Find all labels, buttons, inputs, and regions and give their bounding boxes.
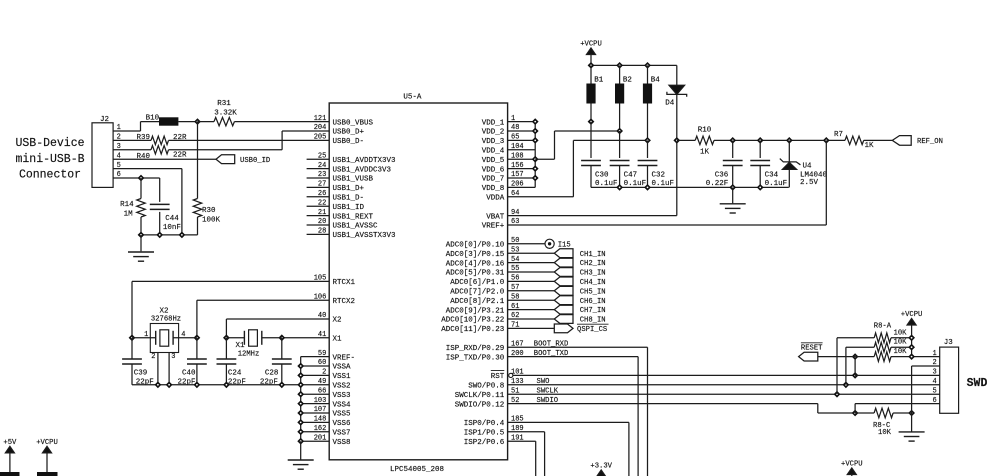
svg-text:1: 1 — [144, 331, 148, 339]
svg-text:CH1_IN: CH1_IN — [580, 251, 606, 259]
svg-text:VSS8: VSS8 — [333, 439, 351, 447]
svg-text:ADC0[7]/P2.0: ADC0[7]/P2.0 — [450, 289, 505, 297]
svg-text:1K: 1K — [700, 148, 710, 156]
svg-text:C30: C30 — [595, 171, 609, 179]
svg-text:R30: R30 — [202, 207, 216, 215]
svg-text:CH2_IN: CH2_IN — [580, 260, 606, 268]
svg-text:VREF+: VREF+ — [482, 223, 505, 231]
svg-text:B10: B10 — [146, 114, 160, 122]
svg-text:10K: 10K — [878, 429, 892, 437]
svg-text:J3: J3 — [944, 339, 954, 347]
svg-text:0.1uF: 0.1uF — [765, 180, 788, 188]
svg-text:R39: R39 — [136, 134, 150, 142]
svg-text:X1: X1 — [235, 342, 245, 350]
svg-text:1K: 1K — [865, 142, 875, 150]
svg-text:C47: C47 — [624, 171, 638, 179]
svg-text:R10: R10 — [698, 127, 712, 135]
svg-text:RESET: RESET — [801, 344, 823, 352]
svg-text:USB1_AVSSC: USB1_AVSSC — [333, 223, 379, 231]
svg-text:X2: X2 — [333, 317, 342, 325]
svg-text:C44: C44 — [165, 215, 179, 223]
svg-text:R7: R7 — [834, 131, 843, 139]
svg-text:VDD_7: VDD_7 — [482, 176, 505, 184]
svg-text:REF_ON: REF_ON — [917, 138, 943, 146]
svg-text:+VCPU: +VCPU — [580, 41, 602, 49]
svg-text:USB1_D+: USB1_D+ — [333, 185, 365, 193]
svg-text:+VCPU: +VCPU — [901, 311, 923, 319]
svg-text:VSS1: VSS1 — [333, 373, 352, 381]
svg-text:SWD: SWD — [967, 377, 988, 390]
svg-text:CH7_IN: CH7_IN — [580, 307, 606, 315]
svg-text:USB1_VUSB: USB1_VUSB — [333, 176, 374, 184]
svg-text:2: 2 — [151, 353, 155, 361]
svg-text:R31: R31 — [217, 100, 231, 108]
svg-text:10K: 10K — [894, 339, 908, 347]
svg-text:10K: 10K — [894, 329, 908, 337]
svg-text:SWO/P0.8: SWO/P0.8 — [468, 383, 504, 391]
svg-text:VDDA: VDDA — [486, 195, 505, 203]
svg-text:B1: B1 — [594, 77, 604, 85]
svg-text:C32: C32 — [652, 171, 666, 179]
svg-text:mini-USB-B: mini-USB-B — [15, 153, 84, 166]
svg-text:USB0_D+: USB0_D+ — [333, 129, 365, 137]
svg-text:CH8_IN: CH8_IN — [580, 317, 606, 325]
svg-text:R8-A: R8-A — [874, 322, 892, 330]
svg-text:ISP2/P0.6: ISP2/P0.6 — [464, 439, 505, 447]
svg-text:C39: C39 — [134, 369, 148, 377]
svg-text:VSS5: VSS5 — [333, 411, 352, 419]
svg-text:VSS2: VSS2 — [333, 383, 351, 391]
svg-text:USB0_VBUS: USB0_VBUS — [333, 119, 374, 127]
svg-text:1M: 1M — [124, 211, 134, 219]
svg-text:ISP_RXD/P0.29: ISP_RXD/P0.29 — [446, 345, 505, 353]
svg-text:SWO: SWO — [537, 378, 550, 386]
svg-text:ADC0[8]/P2.1: ADC0[8]/P2.1 — [450, 298, 505, 306]
svg-text:BOOT_TXD: BOOT_TXD — [534, 350, 569, 358]
svg-text:VDD_5: VDD_5 — [482, 157, 505, 165]
svg-text:USB0_D-: USB0_D- — [333, 138, 365, 146]
svg-text:CH5_IN: CH5_IN — [580, 288, 606, 296]
svg-text:RST: RST — [491, 373, 505, 381]
svg-text:B4: B4 — [651, 77, 661, 85]
svg-text:U4: U4 — [803, 162, 813, 170]
svg-text:CH3_IN: CH3_IN — [580, 270, 606, 278]
svg-text:+5V: +5V — [3, 439, 17, 447]
svg-text:ISP0/P0.4: ISP0/P0.4 — [464, 420, 505, 428]
svg-text:10K: 10K — [894, 348, 908, 356]
svg-text:VSS7: VSS7 — [333, 430, 351, 438]
svg-text:CH6_IN: CH6_IN — [580, 298, 606, 306]
svg-text:+VCPU: +VCPU — [841, 461, 863, 469]
svg-text:SWDIO/P0.12: SWDIO/P0.12 — [455, 401, 505, 409]
svg-text:USB1_AVDDTX3V3: USB1_AVDDTX3V3 — [333, 157, 397, 165]
svg-text:100K: 100K — [202, 216, 221, 224]
svg-text:SWCLK/P0.11: SWCLK/P0.11 — [455, 392, 505, 400]
svg-text:ISP_TXD/P0.30: ISP_TXD/P0.30 — [446, 354, 505, 362]
svg-text:VDD_1: VDD_1 — [482, 119, 505, 127]
svg-text:VSS4: VSS4 — [333, 401, 352, 409]
svg-text:C36: C36 — [715, 171, 729, 179]
svg-text:VSSA: VSSA — [333, 364, 352, 372]
svg-text:VDD_2: VDD_2 — [482, 129, 505, 137]
svg-text:22R: 22R — [173, 151, 187, 159]
svg-text:32768Hz: 32768Hz — [151, 315, 181, 323]
svg-text:B2: B2 — [623, 77, 632, 85]
svg-text:3.32K: 3.32K — [214, 110, 237, 118]
svg-text:VREF-: VREF- — [333, 354, 356, 362]
svg-text:R14: R14 — [120, 201, 134, 209]
svg-text:3: 3 — [171, 353, 175, 361]
svg-text:VSS3: VSS3 — [333, 392, 352, 400]
svg-text:X2: X2 — [159, 308, 168, 316]
svg-text:J2: J2 — [100, 116, 109, 124]
svg-text:USB1_AVDDC3V3: USB1_AVDDC3V3 — [333, 166, 392, 174]
svg-text:0.22F: 0.22F — [706, 180, 729, 188]
svg-text:QSPI_CS: QSPI_CS — [577, 326, 607, 334]
svg-text:10nF: 10nF — [163, 224, 181, 232]
svg-text:4: 4 — [181, 331, 185, 339]
svg-text:USB1_D-: USB1_D- — [333, 195, 365, 203]
svg-text:VDD_6: VDD_6 — [482, 166, 505, 174]
svg-text:ADC0[6]/P1.0: ADC0[6]/P1.0 — [450, 279, 505, 287]
svg-text:CH4_IN: CH4_IN — [580, 279, 606, 287]
svg-text:SWDIO: SWDIO — [537, 397, 559, 405]
svg-text:USB0_ID: USB0_ID — [240, 157, 270, 165]
svg-text:+VCPU: +VCPU — [36, 439, 58, 447]
svg-text:C24: C24 — [228, 369, 242, 377]
svg-text:LPC54005_208: LPC54005_208 — [390, 466, 444, 474]
svg-text:USB1_ID: USB1_ID — [333, 204, 365, 212]
svg-text:RTCX2: RTCX2 — [333, 298, 356, 306]
svg-text:SWCLK: SWCLK — [537, 387, 559, 395]
svg-text:ADC0[0]/P0.10: ADC0[0]/P0.10 — [446, 242, 505, 250]
svg-text:U5-A: U5-A — [403, 94, 422, 102]
svg-text:X1: X1 — [333, 336, 343, 344]
svg-text:USB1_REXT: USB1_REXT — [333, 213, 374, 221]
svg-text:Connector: Connector — [19, 169, 81, 182]
svg-text:C34: C34 — [765, 171, 779, 179]
svg-text:ADC0[3]/P0.15: ADC0[3]/P0.15 — [446, 251, 505, 259]
svg-text:+3.3V: +3.3V — [590, 463, 612, 471]
svg-text:2.5V: 2.5V — [800, 179, 819, 187]
svg-text:USB-Device: USB-Device — [15, 137, 84, 150]
svg-text:USB1_AVSSTX3V3: USB1_AVSSTX3V3 — [333, 232, 397, 240]
svg-text:C40: C40 — [182, 369, 196, 377]
svg-text:BOOT_RXD: BOOT_RXD — [534, 340, 569, 348]
svg-text:VDD_4: VDD_4 — [482, 148, 505, 156]
svg-text:D4: D4 — [665, 100, 675, 108]
svg-text:VSS6: VSS6 — [333, 420, 352, 428]
svg-text:ADC0[5]/P0.31: ADC0[5]/P0.31 — [446, 270, 505, 278]
svg-text:VDD_8: VDD_8 — [482, 185, 505, 193]
svg-text:ADC0[11]/P0.23: ADC0[11]/P0.23 — [441, 326, 505, 334]
svg-text:ADC0[4]/P0.16: ADC0[4]/P0.16 — [446, 260, 505, 268]
svg-text:C28: C28 — [265, 369, 279, 377]
svg-text:ADC0[10]/P3.22: ADC0[10]/P3.22 — [441, 317, 504, 325]
svg-text:VBAT: VBAT — [486, 213, 505, 221]
svg-text:RTCX1: RTCX1 — [333, 279, 356, 287]
svg-text:ISP1/P0.5: ISP1/P0.5 — [464, 430, 505, 438]
svg-text:12MHz: 12MHz — [238, 350, 260, 358]
svg-text:VDD_3: VDD_3 — [482, 138, 505, 146]
svg-text:ADC0[9]/P3.21: ADC0[9]/P3.21 — [446, 307, 505, 315]
